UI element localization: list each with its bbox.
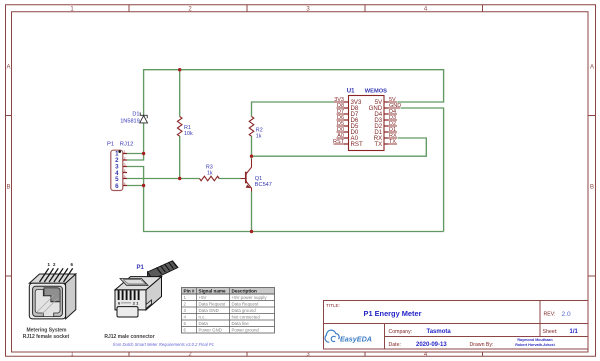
svg-text:2020-09-13: 2020-09-13: [416, 342, 447, 348]
svg-text:Drawn By:: Drawn By:: [470, 342, 494, 348]
svg-text:Pin #: Pin #: [184, 288, 195, 293]
wire: Q1 emitter to ground rail: [251, 192, 253, 232]
wire: P1 pin6 stub: [127, 185, 144, 187]
female socket caption: [23, 328, 70, 341]
svg-text:TX: TX: [374, 141, 382, 148]
svg-text:A: A: [590, 65, 594, 71]
wire: D1 anode down to P1 pin1/pin2: [127, 123, 144, 160]
latch: [117, 307, 138, 317]
svg-text:6: 6: [124, 182, 126, 186]
svg-text:TITLE:: TITLE:: [326, 303, 340, 308]
svg-text:5: 5: [124, 175, 126, 179]
cable: [148, 261, 179, 280]
junction node: rail / R1: [178, 68, 181, 71]
svg-text:Data GND: Data GND: [199, 308, 219, 313]
svg-text:Power ground: Power ground: [232, 327, 260, 332]
U1 pin stubs left: [344, 102, 349, 144]
svg-text:Data: Data: [199, 321, 209, 326]
svg-text:n.c.: n.c.: [199, 314, 206, 319]
svg-text:Company:: Company:: [389, 329, 413, 335]
resistor R2 1k: [249, 117, 254, 137]
svg-text:BC547: BC547: [255, 182, 272, 188]
net labels left of U1: [333, 97, 345, 145]
svg-text:Signal name: Signal name: [199, 288, 227, 293]
svg-text:from Dutch Smart Meter Require: from Dutch Smart Meter Requirements v3.0…: [113, 342, 214, 347]
svg-text:2: 2: [124, 156, 126, 160]
svg-text:RST: RST: [351, 141, 363, 148]
junction node: emitter / ground rail: [250, 230, 253, 233]
svg-text:6: 6: [115, 183, 119, 190]
svg-text:Metering System: Metering System: [26, 328, 67, 334]
svg-text:EasyEDA: EasyEDA: [340, 335, 372, 344]
female socket opening: [33, 286, 63, 316]
U1 pin names inside: [351, 99, 363, 148]
wire: top +5V rail: [144, 70, 444, 116]
svg-text:1/1: 1/1: [570, 329, 579, 335]
resistor R3 1k: [200, 176, 220, 181]
svg-text:1N5819: 1N5819: [120, 119, 140, 125]
pin description table: [182, 288, 275, 334]
IC U1 WEMOS: [349, 96, 385, 151]
svg-text:1: 1: [124, 150, 126, 154]
svg-text:P1: P1: [137, 265, 145, 271]
junction node: R1 / data line: [178, 177, 181, 180]
svg-text:D1: D1: [132, 112, 139, 118]
svg-text:RJ12 male connector: RJ12 male connector: [104, 334, 154, 340]
svg-text:R1: R1: [184, 125, 191, 131]
EasyEDA logo: [325, 330, 339, 342]
svg-text:Data Request: Data Request: [232, 301, 260, 306]
junction node: D1 / pin1: [142, 152, 145, 155]
svg-text:Sheet:: Sheet:: [543, 329, 558, 335]
svg-text:P1 Energy Meter: P1 Energy Meter: [364, 309, 422, 318]
svg-text:1k: 1k: [256, 133, 262, 139]
svg-text:P1: P1: [107, 141, 114, 147]
net labels right of U1: [389, 97, 401, 145]
svg-text:Date:: Date:: [389, 342, 401, 348]
wire: R1 bottom lead to data line: [179, 136, 181, 179]
body faces: [115, 277, 162, 290]
svg-text:2 1: 2 1: [133, 301, 139, 306]
wire: GND from U1 down right side to ground rail: [401, 108, 444, 232]
svg-text:Description: Description: [232, 288, 257, 293]
svg-text:RJ12 female socket: RJ12 female socket: [23, 334, 70, 340]
U1 pin stubs right: [384, 102, 389, 144]
svg-text:B: B: [6, 185, 10, 191]
svg-text:1k: 1k: [207, 170, 213, 176]
svg-text:Power GND: Power GND: [199, 327, 222, 332]
svg-text:2.0: 2.0: [562, 311, 571, 318]
svg-text:3: 3: [124, 163, 126, 167]
contact window on top: [120, 279, 148, 286]
svg-text:WEMOS: WEMOS: [365, 89, 387, 95]
svg-text:Tasmota: Tasmota: [427, 329, 452, 335]
svg-text:Raymond Mouthaan: Raymond Mouthaan: [517, 338, 553, 342]
junction node: pin6 / gnd stem: [142, 184, 145, 187]
svg-text:Data Request: Data Request: [199, 301, 227, 306]
wire: R2 bottom to collector node: [251, 136, 253, 159]
title block: [324, 301, 589, 350]
svg-text:U1: U1: [347, 89, 355, 95]
junction node: R2 / RX / collector: [250, 155, 253, 158]
svg-text:Data line: Data line: [232, 321, 250, 326]
svg-text:A: A: [6, 65, 10, 71]
svg-text:RJ12: RJ12: [120, 141, 134, 147]
svg-text:Data ground: Data ground: [232, 308, 257, 313]
svg-text:+5V power supply: +5V power supply: [232, 295, 268, 300]
RJ12 male connector drawing: [115, 261, 178, 317]
svg-text:Robert Horvath-Arkosi: Robert Horvath-Arkosi: [515, 343, 555, 347]
resistor R1 10k: [177, 117, 182, 137]
svg-text:+5V: +5V: [199, 295, 207, 300]
wire: P1 pin3 to pin6 to ground rail: [127, 167, 444, 232]
connector P1 RJ12: [111, 150, 123, 190]
wire: RX net from U1 to collector node: [252, 138, 427, 156]
svg-text:B: B: [590, 185, 594, 191]
wire: R3 to Q1 base: [219, 178, 241, 180]
RJ12 female socket drawing: [29, 274, 76, 319]
svg-text:REV:: REV:: [544, 311, 556, 317]
wire: R1 top lead: [179, 70, 181, 117]
svg-text:10k: 10k: [184, 131, 193, 137]
female socket pins: [40, 268, 73, 282]
diode D1 1N5819: [140, 112, 148, 123]
svg-text:Not connected: Not connected: [232, 314, 261, 319]
svg-text:4: 4: [124, 169, 126, 173]
transistor Q1 BC547: [241, 159, 252, 192]
pins: [119, 290, 139, 300]
wire: R2 top to 3V3 pin: [252, 102, 335, 117]
wire: data line P1 pin5 to R3: [127, 178, 200, 180]
wire: P1 pin1 stub to junction: [127, 153, 144, 155]
